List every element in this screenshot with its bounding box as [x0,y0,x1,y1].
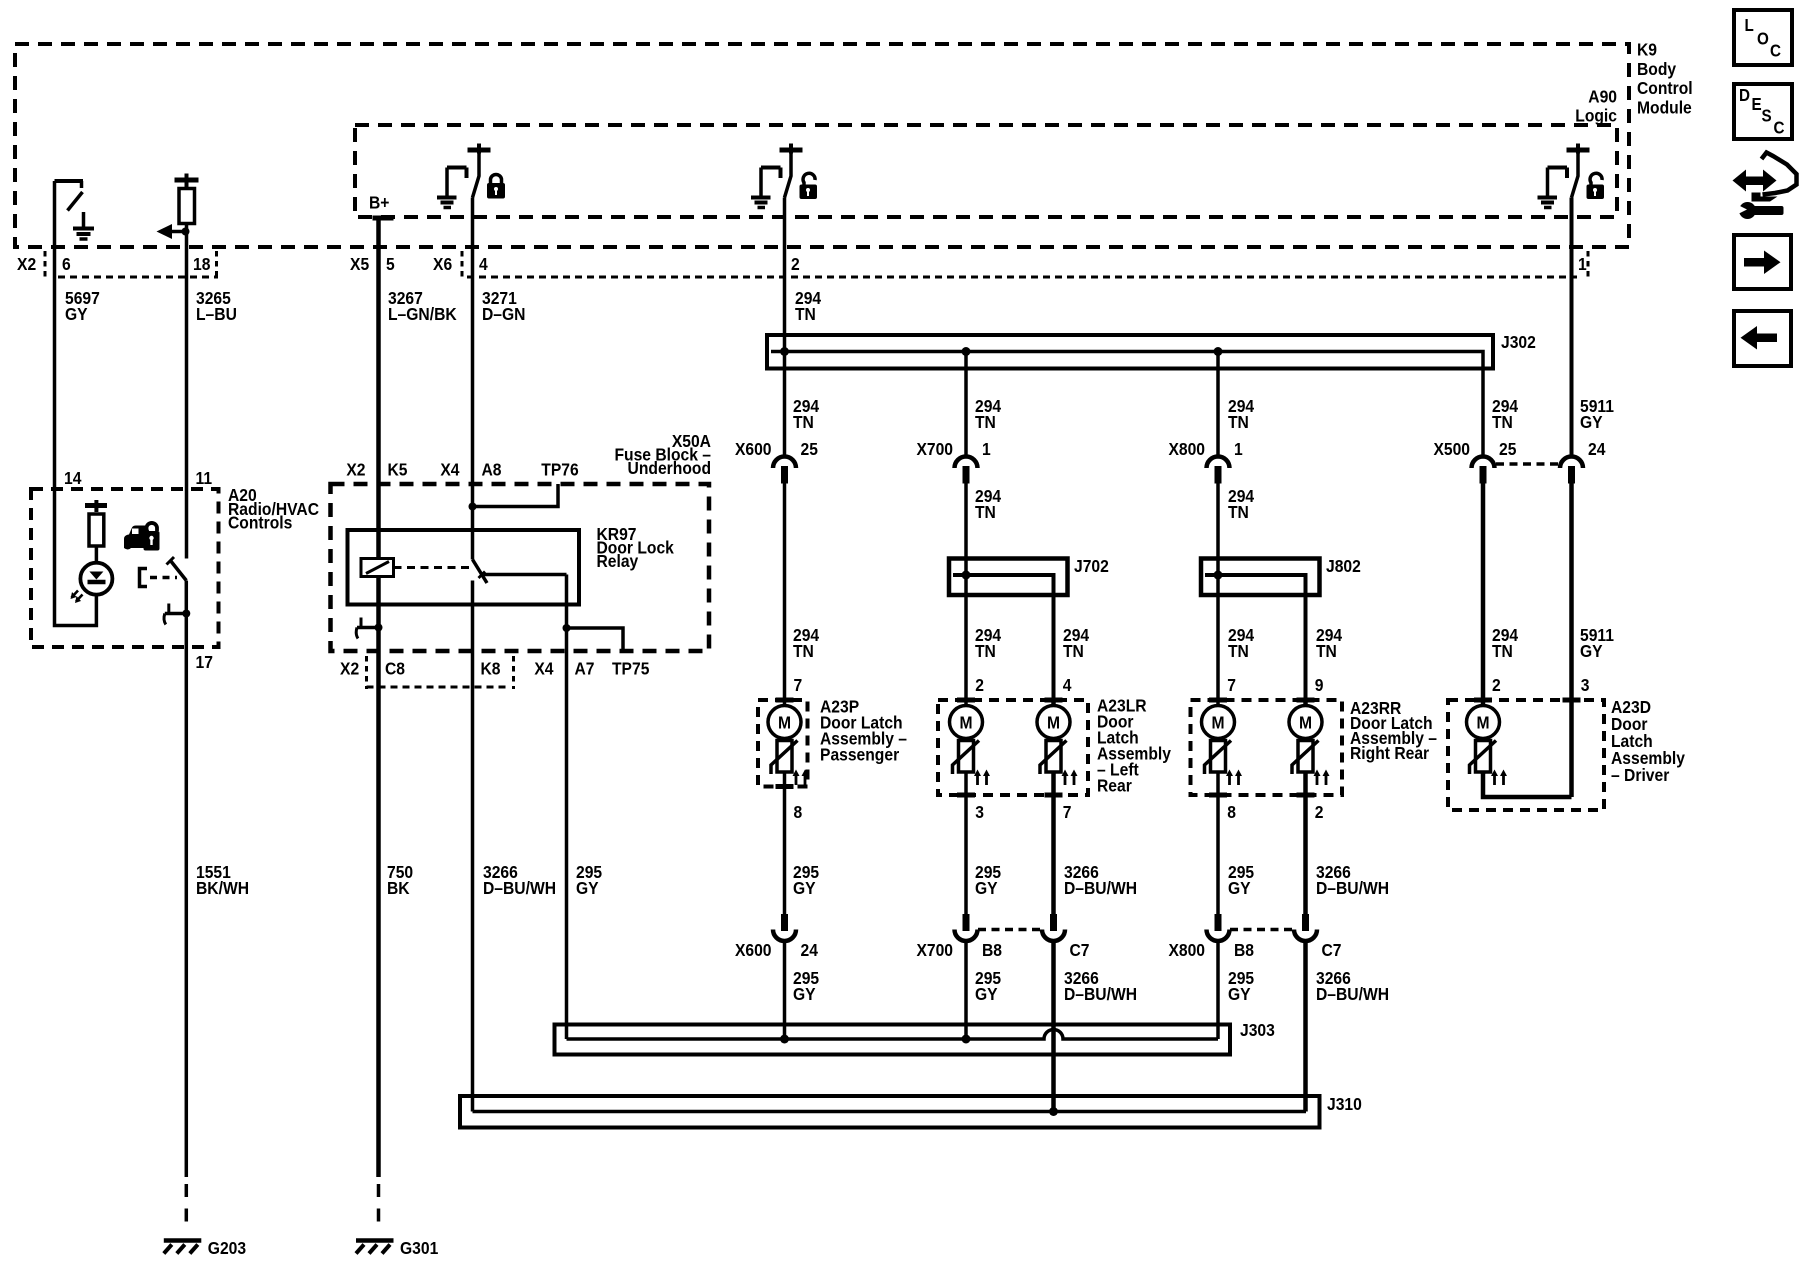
svg-text:1: 1 [1578,254,1587,274]
svg-text:E: E [1752,95,1762,114]
svg-text:Underhood: Underhood [628,458,711,478]
svg-text:B+: B+ [369,192,390,212]
svg-text:D: D [1739,86,1750,105]
svg-text:G203: G203 [208,1238,246,1258]
svg-text:C7: C7 [1322,940,1342,960]
svg-text:TP75: TP75 [612,658,649,678]
svg-text:7: 7 [794,675,803,695]
svg-text:X700: X700 [916,439,953,459]
svg-text:X800: X800 [1168,940,1205,960]
svg-text:A8: A8 [482,459,502,479]
svg-text:TN: TN [795,304,816,324]
svg-text:25: 25 [1499,439,1516,459]
svg-text:S: S [1762,107,1772,126]
svg-text:4: 4 [1063,675,1072,695]
svg-text:GY: GY [793,984,816,1004]
svg-text:TN: TN [1228,502,1249,522]
svg-text:X600: X600 [735,940,772,960]
svg-text:B8: B8 [1234,940,1254,960]
svg-text:L–BU: L–BU [196,304,237,324]
svg-text:TN: TN [1063,641,1084,661]
svg-text:GY: GY [975,984,998,1004]
svg-text:Body: Body [1637,59,1677,79]
svg-text:6: 6 [62,254,71,274]
svg-text:2: 2 [1492,675,1501,695]
svg-text:M: M [1211,712,1224,732]
svg-text:TN: TN [1228,412,1249,432]
svg-text:M: M [1047,712,1060,732]
svg-text:TN: TN [793,412,814,432]
svg-text:C8: C8 [385,658,405,678]
svg-text:X2: X2 [17,254,36,274]
svg-text:C7: C7 [1070,940,1090,960]
svg-text:TN: TN [975,412,996,432]
svg-text:BK: BK [387,878,410,898]
svg-text:X5: X5 [350,254,369,274]
svg-text:J802: J802 [1326,556,1361,576]
svg-text:4: 4 [479,254,488,274]
svg-text:Logic: Logic [1575,105,1617,125]
svg-text:L: L [1745,16,1754,35]
svg-text:GY: GY [576,878,599,898]
svg-text:1: 1 [982,439,991,459]
svg-text:D–BU/WH: D–BU/WH [483,878,556,898]
svg-text:TN: TN [793,641,814,661]
svg-text:9: 9 [1315,675,1324,695]
svg-text:C: C [1770,42,1781,61]
svg-text:X2: X2 [340,658,359,678]
svg-text:24: 24 [1588,439,1606,459]
svg-text:D–BU/WH: D–BU/WH [1316,984,1389,1004]
svg-text:K5: K5 [388,459,408,479]
svg-text:GY: GY [793,878,816,898]
svg-text:TN: TN [975,641,996,661]
svg-text:GY: GY [1580,641,1603,661]
svg-text:TN: TN [1316,641,1337,661]
svg-text:J302: J302 [1501,332,1536,352]
svg-text:X4: X4 [440,459,460,479]
svg-text:K9: K9 [1637,39,1657,59]
svg-text:M: M [959,712,972,732]
svg-text:M: M [778,712,791,732]
svg-text:A7: A7 [575,658,595,678]
svg-text:L–GN/BK: L–GN/BK [388,304,457,324]
svg-text:X700: X700 [916,940,953,960]
svg-text:D–BU/WH: D–BU/WH [1064,878,1137,898]
svg-text:– Driver: – Driver [1611,765,1670,785]
svg-text:Control: Control [1637,78,1693,98]
svg-text:D–BU/WH: D–BU/WH [1316,878,1389,898]
svg-text:3: 3 [975,802,984,822]
svg-text:14: 14 [64,468,82,488]
svg-text:7: 7 [1063,802,1072,822]
svg-text:GY: GY [1580,412,1603,432]
svg-text:2: 2 [791,254,800,274]
svg-text:X600: X600 [735,439,772,459]
svg-text:TP76: TP76 [541,459,578,479]
svg-text:X4: X4 [534,658,554,678]
svg-text:7: 7 [1227,675,1236,695]
svg-text:X2: X2 [346,459,365,479]
svg-text:Rear: Rear [1097,775,1132,795]
svg-text:M: M [1299,712,1312,732]
svg-text:J310: J310 [1327,1094,1362,1114]
svg-text:Controls: Controls [228,513,292,533]
svg-text:GY: GY [1228,878,1251,898]
svg-text:TN: TN [1492,412,1513,432]
svg-text:X800: X800 [1168,439,1205,459]
svg-text:2: 2 [975,675,984,695]
svg-text:J702: J702 [1074,556,1109,576]
svg-text:Right Rear: Right Rear [1350,743,1430,763]
svg-text:Module: Module [1637,97,1692,117]
svg-text:25: 25 [801,439,818,459]
svg-text:Passenger: Passenger [820,744,900,764]
svg-text:8: 8 [1227,802,1236,822]
svg-text:J303: J303 [1240,1020,1275,1040]
svg-text:GY: GY [1228,984,1251,1004]
svg-text:Relay: Relay [597,551,639,571]
svg-text:1: 1 [1234,439,1243,459]
svg-text:M: M [1476,712,1489,732]
svg-text:18: 18 [193,254,210,274]
svg-text:C: C [1774,119,1785,138]
svg-text:TN: TN [1228,641,1249,661]
svg-text:K8: K8 [481,658,501,678]
svg-text:5: 5 [386,254,395,274]
svg-text:3: 3 [1581,675,1590,695]
svg-text:B8: B8 [982,940,1002,960]
svg-text:A90: A90 [1588,86,1617,106]
svg-text:GY: GY [975,878,998,898]
svg-text:17: 17 [196,652,213,672]
svg-text:8: 8 [794,802,803,822]
svg-text:D–GN: D–GN [482,304,525,324]
svg-text:G301: G301 [400,1238,438,1258]
svg-text:TN: TN [1492,641,1513,661]
svg-text:2: 2 [1315,802,1324,822]
svg-text:11: 11 [196,468,213,488]
svg-text:X500: X500 [1433,439,1470,459]
svg-text:24: 24 [801,940,819,960]
svg-text:BK/WH: BK/WH [196,878,249,898]
svg-text:TN: TN [975,502,996,522]
svg-text:X6: X6 [433,254,452,274]
svg-text:GY: GY [65,304,88,324]
svg-text:D–BU/WH: D–BU/WH [1064,984,1137,1004]
svg-text:O: O [1757,30,1769,49]
